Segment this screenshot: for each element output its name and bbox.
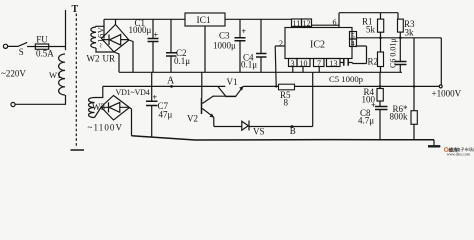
svg-text:VS: VS (253, 127, 265, 137)
svg-text:C3: C3 (219, 30, 230, 40)
svg-text:B: B (290, 126, 296, 136)
svg-text:+1000V: +1000V (432, 89, 462, 99)
svg-text:1000μ: 1000μ (129, 25, 152, 35)
svg-text:11: 11 (293, 19, 301, 28)
svg-text:W2: W2 (87, 54, 100, 64)
svg-text:13: 13 (330, 59, 338, 68)
svg-text:S: S (19, 47, 24, 57)
svg-text:3k: 3k (405, 27, 415, 37)
svg-text:3: 3 (291, 59, 295, 68)
svg-text:12: 12 (303, 19, 311, 28)
svg-text:C5 1000p: C5 1000p (329, 74, 363, 84)
svg-text:~220V: ~220V (1, 69, 26, 79)
svg-text:5k: 5k (366, 25, 376, 35)
svg-text:7: 7 (317, 59, 321, 68)
svg-text:C6 0.01μ: C6 0.01μ (389, 38, 398, 68)
svg-text:6: 6 (333, 18, 337, 27)
svg-text:UR: UR (103, 54, 116, 64)
svg-text:1000μ: 1000μ (213, 40, 236, 50)
svg-text:0.1μ: 0.1μ (174, 56, 190, 66)
svg-text:R2: R2 (368, 56, 379, 66)
svg-text:0.5A: 0.5A (36, 48, 54, 58)
svg-text:+: + (154, 30, 159, 39)
svg-text:4.7μ: 4.7μ (358, 116, 374, 126)
svg-text:8: 8 (284, 98, 289, 108)
svg-text:2: 2 (279, 39, 283, 48)
svg-text:FU: FU (36, 34, 48, 44)
svg-text:~16V: ~16V (95, 26, 105, 47)
svg-text:VD1~VD4: VD1~VD4 (116, 88, 150, 97)
svg-text:800k: 800k (390, 112, 409, 122)
svg-text:+: + (242, 27, 247, 36)
svg-text:V2: V2 (187, 114, 198, 124)
svg-text:W1: W1 (49, 70, 61, 80)
svg-text:0.1μ: 0.1μ (241, 59, 257, 69)
svg-text:+: + (371, 101, 376, 110)
svg-text:www.dzsc.com: www.dzsc.com (447, 153, 470, 156)
svg-text:47μ: 47μ (159, 110, 173, 120)
svg-text:T: T (72, 4, 79, 15)
svg-text:IC2: IC2 (310, 40, 325, 51)
svg-text:A: A (167, 76, 175, 87)
svg-text:V1: V1 (227, 77, 238, 87)
svg-text:IC1: IC1 (197, 16, 212, 26)
svg-text:4: 4 (351, 39, 355, 48)
svg-text:~1100V: ~1100V (88, 123, 124, 133)
svg-text:10: 10 (300, 59, 308, 68)
